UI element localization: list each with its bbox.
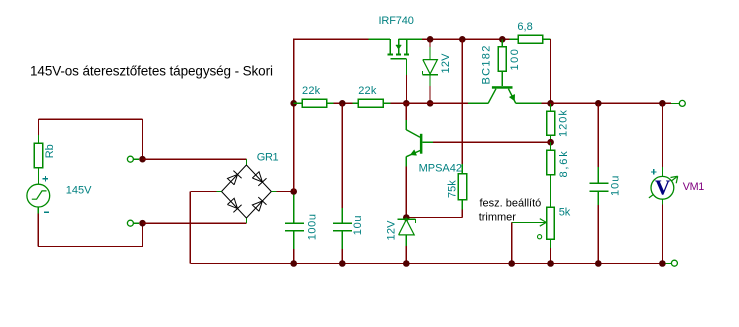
transistor Q2 BC182 xyxy=(488,86,515,103)
svg-text:trimmer: trimmer xyxy=(479,212,517,224)
node junction output cap top xyxy=(595,100,602,107)
wire 75k top vertical xyxy=(461,39,463,164)
wire bottom-left horizontal xyxy=(38,246,143,248)
svg-text:12V: 12V xyxy=(440,53,452,74)
wire bridge left to down corner xyxy=(190,191,216,193)
minus sign of source xyxy=(44,211,49,213)
wire bridge top pin xyxy=(245,159,247,165)
node junction zener1 bottom xyxy=(427,100,434,107)
plus sign of source xyxy=(43,178,48,180)
wire VM1 top xyxy=(661,103,663,167)
trimmer bottom mark xyxy=(538,235,542,239)
node junction C1 bottom xyxy=(290,260,297,267)
svg-text:8,6k: 8,6k xyxy=(558,150,570,178)
wire main + vertical xyxy=(293,39,295,192)
wire top-left horizontal xyxy=(39,118,143,120)
node junction zener1 top xyxy=(427,36,434,43)
resistor 8,6k xyxy=(550,142,552,150)
resistor 100 xyxy=(501,39,503,47)
plus sign of VM1 xyxy=(651,171,657,173)
node junction lower input xyxy=(139,220,146,227)
terminal T1 (upper input) xyxy=(127,156,133,162)
potentiometer 5k trimmer xyxy=(547,207,555,239)
svg-text:Rb: Rb xyxy=(44,144,56,158)
wire wiper to ground rail xyxy=(511,222,513,263)
arrow of BC182 emitter xyxy=(509,94,514,100)
wire gate down xyxy=(405,59,407,75)
wire bridge left pin xyxy=(217,191,222,193)
svg-text:10u: 10u xyxy=(352,215,364,235)
terminal T4 (output -) xyxy=(671,260,677,266)
wire to output terminal xyxy=(666,102,672,104)
svg-text:145V-os áteresztőfetes tápegys: 145V-os áteresztőfetes tápegység - Skori xyxy=(30,64,273,79)
node junction between 22k resistors xyxy=(339,100,346,107)
wire upper input to bridge xyxy=(143,158,247,160)
wire bridge right pin xyxy=(271,191,276,193)
AC source V1 145V xyxy=(27,184,50,207)
wiper arrow of trimmer xyxy=(512,221,547,223)
resistor 6,8 xyxy=(510,38,519,40)
node junction wiper ground xyxy=(508,260,515,267)
wire to ground terminal xyxy=(666,263,672,265)
svg-text:fesz. beállító: fesz. beállító xyxy=(480,198,542,210)
capacitor C3 10u output xyxy=(597,103,599,167)
wire gate rail xyxy=(294,102,302,104)
terminal T2 (lower input) xyxy=(127,220,133,226)
svg-text:145V: 145V xyxy=(66,185,92,197)
wire bridge bottom pin xyxy=(245,218,247,223)
node junction gate-divider tap xyxy=(290,100,297,107)
svg-text:120k: 120k xyxy=(558,109,570,137)
node junction trimmer bottom xyxy=(547,260,554,267)
svg-text:VM1: VM1 xyxy=(683,181,705,193)
wire VM1 bottom xyxy=(661,199,663,204)
voltmeter VM1 xyxy=(649,177,677,198)
node junction upper input xyxy=(139,156,146,163)
wire MPSA42 emitter down xyxy=(405,157,407,167)
svg-text:MPSA42: MPSA42 xyxy=(419,163,462,175)
node junction bridge + output xyxy=(290,188,297,195)
wire top rail left (drain) xyxy=(293,38,368,40)
node junction C3 bottom xyxy=(595,260,602,267)
capacitor C1 100u xyxy=(293,195,295,224)
wire source bottom xyxy=(37,207,39,214)
svg-text:6,8: 6,8 xyxy=(517,21,532,33)
wire bottom rail xyxy=(190,263,668,265)
node junction C2 bottom xyxy=(339,260,346,267)
resistor R2 22k xyxy=(358,99,383,107)
wire bridge right to +node xyxy=(277,191,294,193)
wire left vertical to Rb xyxy=(38,119,40,135)
node junction emitter/75k/zener2 xyxy=(403,214,410,221)
svg-text:22k: 22k xyxy=(358,85,377,97)
terminal T3 (output +) xyxy=(679,100,685,106)
wire top rail (source side) xyxy=(399,38,422,40)
capacitor C2 10u xyxy=(341,103,343,208)
node junction zener2 bottom xyxy=(403,260,410,267)
node junction 75k top xyxy=(459,36,466,43)
wire up to lower input node xyxy=(142,223,144,247)
svg-text:22k: 22k xyxy=(302,85,321,97)
wire BC182 emitter to output node xyxy=(516,102,542,104)
svg-text:V: V xyxy=(655,176,671,200)
arrow of MPSA42 emitter xyxy=(410,150,416,156)
node junction gate/collector xyxy=(403,100,410,107)
resistor R1 22k xyxy=(302,99,327,107)
node junction base divider xyxy=(547,139,554,146)
svg-text:75k: 75k xyxy=(447,180,459,198)
MOSFET IRF740 xyxy=(388,39,410,59)
bridge rectifier GR1 xyxy=(222,165,272,218)
zener diode D2 12V xyxy=(405,218,407,220)
node junction output top xyxy=(547,100,554,107)
svg-text:5k: 5k xyxy=(559,206,571,218)
resistor 120k xyxy=(550,103,552,111)
wire MPSA42 base xyxy=(422,141,433,143)
svg-text:100u: 100u xyxy=(307,213,319,240)
node junction VM bottom xyxy=(659,260,666,267)
resistor 75k xyxy=(461,164,463,174)
zener diode D1 12V xyxy=(429,39,431,47)
svg-text:GR1: GR1 xyxy=(257,152,279,164)
wire output rail xyxy=(551,102,663,104)
wire upper input vertical xyxy=(142,119,144,159)
svg-text:12V: 12V xyxy=(386,220,398,241)
wire lower input to bridge xyxy=(143,222,247,224)
wire 75k bottom to emitter node xyxy=(461,210,463,218)
node junction 100R top xyxy=(499,36,506,43)
svg-text:10u: 10u xyxy=(610,175,622,196)
svg-text:IRF740: IRF740 xyxy=(379,15,414,27)
svg-text:100: 100 xyxy=(509,48,521,71)
transistor Q1 MPSA42 xyxy=(406,103,422,156)
svg-text:BC182: BC182 xyxy=(481,44,493,84)
resistor Rb xyxy=(38,135,40,143)
wire down from 6,8 to output node xyxy=(550,39,552,104)
node junction VM top xyxy=(659,100,666,107)
